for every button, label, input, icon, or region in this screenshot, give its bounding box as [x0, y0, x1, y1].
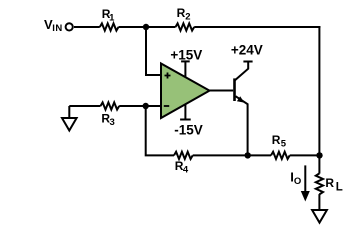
svg-text:5: 5 — [281, 139, 287, 150]
svg-text:R: R — [177, 6, 186, 20]
svg-text:+24V: +24V — [231, 43, 263, 58]
svg-text:O: O — [294, 176, 301, 187]
svg-text:-15V: -15V — [174, 123, 203, 138]
svg-text:3: 3 — [110, 117, 115, 128]
svg-text:+15V: +15V — [170, 47, 202, 62]
svg-text:L: L — [336, 182, 343, 194]
svg-text:2: 2 — [185, 12, 190, 23]
svg-text:IN: IN — [52, 23, 63, 34]
svg-text:1: 1 — [109, 13, 115, 24]
svg-text:R: R — [272, 133, 281, 147]
svg-text:R: R — [325, 176, 334, 190]
svg-text:4: 4 — [183, 164, 189, 175]
